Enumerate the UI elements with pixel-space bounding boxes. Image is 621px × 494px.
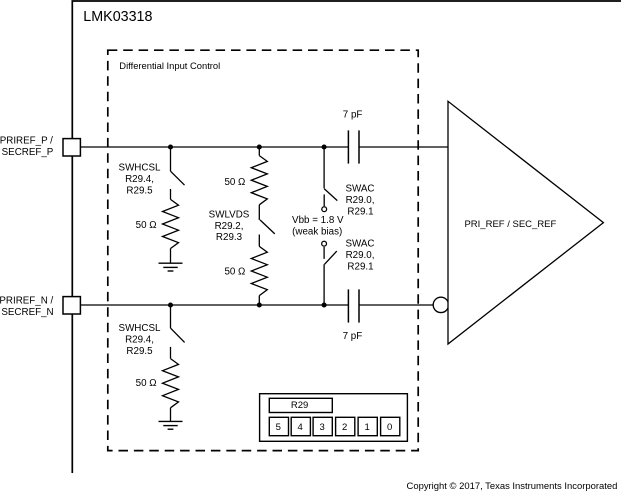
- wire resistor to ground (bottom): [170, 408, 172, 422]
- svg-text:SWAC: SWAC: [345, 239, 374, 250]
- register bit cell 1: [358, 417, 377, 435]
- register box R29 outer: [260, 394, 408, 442]
- svg-text:R29.5: R29.5: [126, 346, 153, 357]
- capacitor C1 7 pF (top): [348, 130, 359, 163]
- wire resistor to ground (top): [170, 249, 172, 264]
- label SWHCSL R29.4, R29.5 (bottom): [119, 323, 161, 357]
- svg-text:3: 3: [319, 422, 324, 433]
- svg-text:SECREF_P: SECREF_P: [2, 147, 54, 158]
- wire N rail (capacitor C2 right plate to bubble): [359, 304, 434, 306]
- svg-text:R29.0,: R29.0,: [346, 195, 375, 206]
- svg-text:R29.0,: R29.0,: [346, 250, 375, 261]
- wire SWHCSL top branch upper segment: [170, 147, 172, 171]
- svg-text:PRIREF_P /: PRIREF_P /: [0, 135, 53, 146]
- node junction N-SWHCSL: [168, 302, 173, 307]
- register bit cell 3: [313, 417, 332, 435]
- resistor 50 ohm (SWLVDS lower): [251, 246, 267, 295]
- switch SWAC top (contact circle): [322, 207, 327, 212]
- node Vbb label: [292, 215, 344, 237]
- register bit cell 4: [291, 417, 310, 435]
- switch SWHCSL bottom (blade): [171, 328, 185, 342]
- svg-text:0: 0: [387, 422, 392, 433]
- dashed box Differential Input Control: [108, 50, 418, 450]
- label SWAC R29.0, R29.1 (top): [345, 184, 374, 218]
- svg-text:7 pF: 7 pF: [343, 109, 363, 120]
- label SWLVDS R29.2, R29.3: [209, 210, 250, 244]
- resistor 50 ohm (SWHCSL top): [163, 199, 179, 248]
- wire SWHCSL bottom branch upper segment: [170, 305, 172, 328]
- switch SWHCSL top (blade): [171, 171, 185, 185]
- svg-text:R29.5: R29.5: [126, 186, 153, 197]
- wire SWLVDS lower segment: [258, 235, 260, 247]
- node junction N-SWLVDS: [257, 302, 262, 307]
- wire SWHCSL top branch lower segment: [170, 189, 172, 199]
- resistor 50 ohm (SWLVDS upper): [251, 156, 267, 205]
- capacitor C2 7 pF (bottom): [348, 289, 359, 322]
- label SWHCSL R29.4, R29.5 (top): [119, 163, 161, 197]
- svg-text:7 pF: 7 pF: [343, 331, 363, 342]
- switch SWAC bottom (blade): [325, 251, 337, 264]
- svg-text:SWHCSL: SWHCSL: [119, 323, 161, 334]
- svg-text:Differential Input Control: Differential Input Control: [119, 60, 220, 71]
- svg-text:R29.3: R29.3: [216, 232, 243, 243]
- wire P rail (capacitor C1 right plate to buffer): [359, 146, 448, 148]
- svg-text:Vbb = 1.8 V: Vbb = 1.8 V: [292, 215, 344, 226]
- switch SWLVDS (blade): [260, 220, 275, 234]
- wire P rail (pad to capacitor C1 left plate): [80, 146, 348, 148]
- svg-text:SWLVDS: SWLVDS: [209, 210, 250, 221]
- svg-text:R29.4,: R29.4,: [125, 174, 154, 185]
- node junction P-SWHCSL: [168, 144, 173, 149]
- svg-text:LMK03318: LMK03318: [83, 9, 152, 25]
- register header box R29: [269, 398, 332, 412]
- svg-text:SECREF_N: SECREF_N: [1, 307, 53, 318]
- wire SWLVDS middle segment: [258, 205, 260, 220]
- ground (SWHCSL bottom): [159, 421, 183, 429]
- svg-text:2: 2: [342, 422, 347, 433]
- svg-text:PRIREF_N /: PRIREF_N /: [0, 295, 54, 306]
- wire SWLVDS upper segment: [258, 147, 260, 156]
- wire SWAC bottom contact stub: [323, 247, 325, 259]
- op-amp buffer PRI_REF/SEC_REF (triangle): [448, 101, 603, 344]
- svg-text:50 Ω: 50 Ω: [136, 378, 157, 389]
- wire SWLVDS to N rail: [258, 296, 260, 305]
- svg-text:R29: R29: [291, 400, 308, 411]
- svg-text:(weak bias): (weak bias): [292, 226, 342, 237]
- resistor 50 ohm (SWHCSL bottom): [163, 359, 179, 408]
- svg-text:50 Ω: 50 Ω: [136, 220, 157, 231]
- svg-text:1: 1: [364, 422, 369, 433]
- svg-text:4: 4: [298, 422, 303, 433]
- svg-text:5: 5: [276, 422, 281, 433]
- svg-text:50 Ω: 50 Ω: [224, 177, 245, 188]
- svg-text:SWAC: SWAC: [345, 184, 374, 195]
- svg-text:R29.1: R29.1: [347, 206, 373, 217]
- svg-text:50 Ω: 50 Ω: [224, 266, 245, 277]
- wire SWAC bottom branch: [323, 264, 325, 305]
- wire SWAC top branch: [323, 147, 325, 188]
- pin pad PRIREF_N/SECREF_N: [63, 297, 80, 314]
- inverting input bubble: [433, 297, 448, 312]
- node junction P-SWAC: [322, 144, 327, 149]
- svg-text:Copyright © 2017, Texas Instru: Copyright © 2017, Texas Instruments Inco…: [407, 481, 618, 492]
- pin pad PRIREF_P/SECREF_P: [63, 139, 80, 156]
- svg-text:R29.4,: R29.4,: [125, 335, 154, 346]
- register bit cell 2: [336, 417, 355, 435]
- label SWAC R29.0, R29.1 (bottom): [345, 239, 374, 273]
- switch SWAC top (blade): [324, 189, 337, 201]
- node junction P-SWLVDS: [257, 144, 262, 149]
- ground (SWHCSL top): [159, 263, 183, 271]
- svg-text:PRI_REF / SEC_REF: PRI_REF / SEC_REF: [464, 219, 556, 230]
- node junction N-SWAC: [322, 302, 327, 307]
- svg-text:SWHCSL: SWHCSL: [119, 163, 161, 174]
- wire N rail (pad to capacitor C2 left plate): [80, 304, 348, 306]
- svg-text:R29.1: R29.1: [347, 262, 373, 273]
- register bit cell 5: [269, 417, 288, 435]
- wire SWHCSL bottom branch lower segment: [170, 347, 172, 359]
- wire SWAC top contact stub: [323, 194, 325, 206]
- switch SWAC bottom (contact circle): [322, 241, 327, 246]
- svg-text:R29.2,: R29.2,: [215, 221, 244, 232]
- register bit cell 0: [381, 417, 400, 435]
